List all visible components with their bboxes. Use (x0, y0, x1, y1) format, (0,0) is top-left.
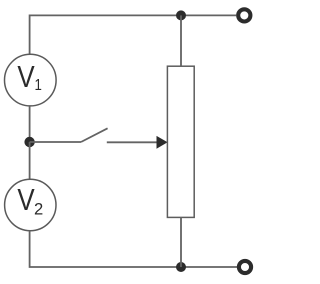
node A junction (24, 137, 34, 147)
wire node A to switch (30, 141, 81, 143)
terminal top output (238, 9, 250, 21)
wiper arrow (107, 136, 168, 149)
node top junction (176, 10, 186, 20)
resistor R1 (167, 66, 194, 217)
wire top node to R1 (180, 15, 182, 66)
voltmeter V2 (5, 179, 56, 230)
wire node A to V2 (29, 142, 31, 179)
switch S1 lever (81, 128, 108, 142)
wire bottom rail (30, 231, 237, 267)
node bottom junction (176, 262, 186, 272)
wire R1 to bottom node (180, 217, 182, 267)
svg-text:V: V (17, 59, 34, 93)
voltmeter V1 (5, 54, 57, 106)
terminal bottom output (239, 261, 251, 273)
svg-text:2: 2 (34, 200, 43, 219)
wire top rail (30, 15, 237, 54)
svg-text:1: 1 (35, 77, 42, 94)
wire V1 to node A (29, 106, 31, 142)
svg-text:V: V (17, 182, 34, 216)
